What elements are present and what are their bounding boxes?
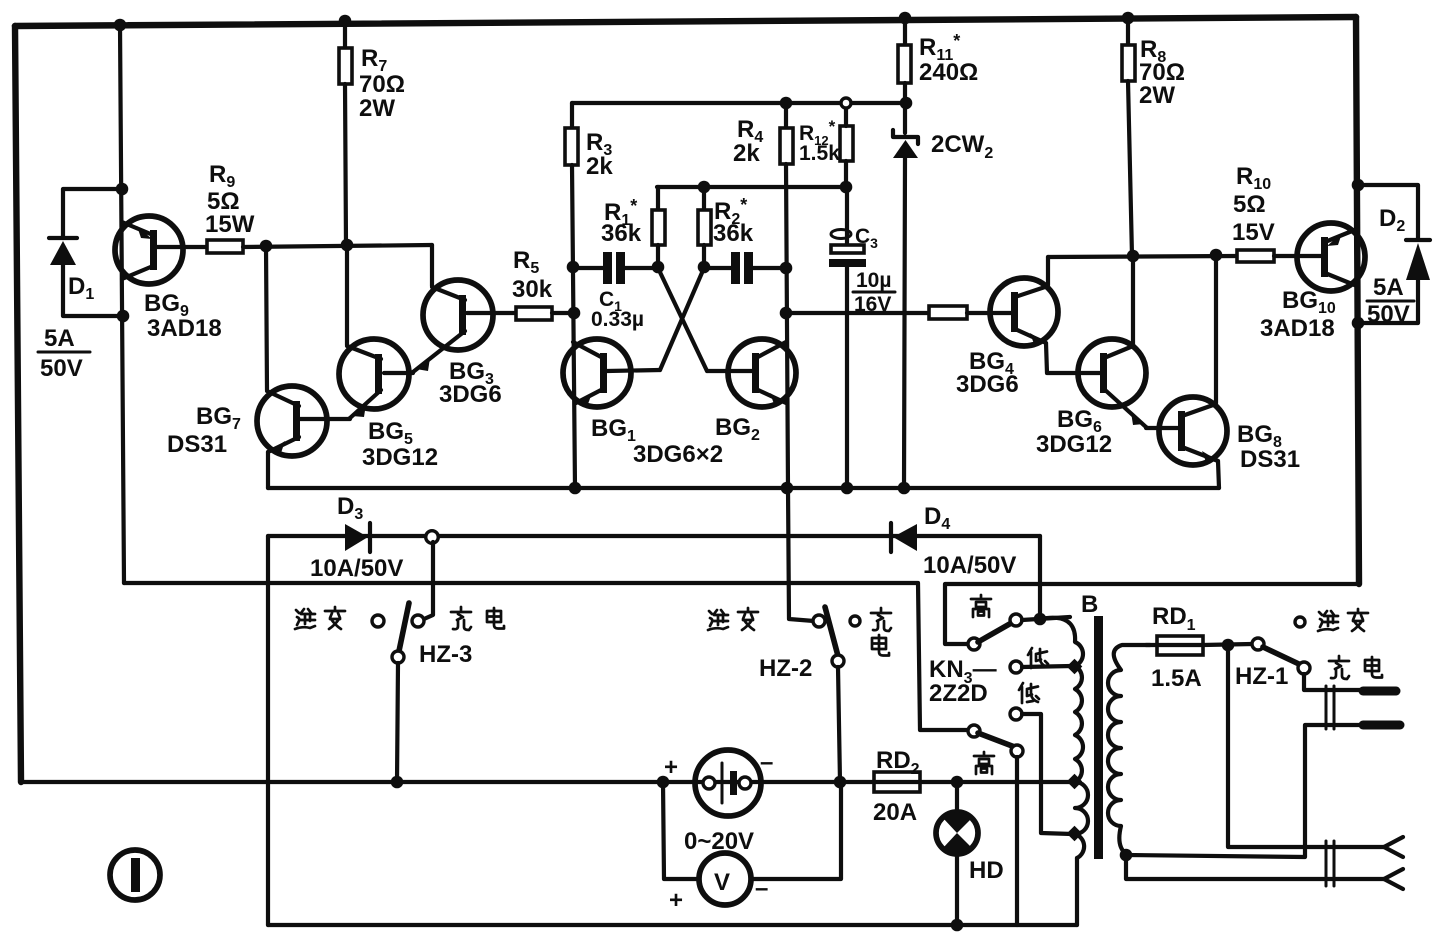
wire BG7 collector	[266, 246, 267, 390]
resistor R11	[898, 18, 911, 133]
label KN3-2Z2D	[929, 656, 997, 707]
transistor BG1	[563, 339, 631, 407]
node D2 top	[1352, 179, 1365, 192]
wire right bus vertical	[1356, 17, 1359, 584]
node HD bottom	[951, 919, 964, 932]
node RD1 output junction	[1222, 639, 1235, 652]
svg-text:36k: 36k	[713, 220, 754, 247]
label HZ-3 charge	[451, 607, 504, 630]
label C3 value 10u/16V	[853, 269, 895, 316]
svg-text:5A: 5A	[44, 325, 75, 352]
transformer primary winding	[1040, 618, 1088, 858]
wire blade 2 to secondary bottom	[1126, 725, 1360, 857]
node D4 / coil top	[1034, 613, 1047, 626]
node C1b / R4 line	[780, 262, 793, 275]
wire middle emitter bus y488	[268, 486, 1219, 490]
svg-text:10A/50V: 10A/50V	[310, 555, 403, 582]
wire BG1 base lead	[607, 370, 660, 371]
svg-text:+: +	[664, 754, 678, 781]
diode D1	[49, 238, 77, 265]
node BG1 line / R5	[568, 307, 581, 320]
svg-text:–: –	[760, 749, 773, 776]
wire D1 bottom branch	[63, 262, 123, 316]
svg-text:0~20V: 0~20V	[684, 828, 754, 855]
wire HZ-1 charge contact to plug blade 1	[1304, 674, 1360, 690]
diode D2	[1406, 240, 1430, 280]
svg-text:30k: 30k	[512, 276, 553, 303]
svg-text:3DG12: 3DG12	[1036, 431, 1112, 458]
node regulated rail / zener	[900, 97, 913, 110]
wire R6 to BG4 base	[967, 311, 1011, 315]
tap diamond middle	[1067, 774, 1083, 790]
resistor R2	[698, 187, 711, 267]
wire HZ-3 feed from D3 rail	[424, 542, 433, 619]
transistor BG9	[115, 216, 207, 284]
wire BG8 collector	[1214, 254, 1218, 403]
resistor R9	[207, 240, 243, 253]
node R7 / BG5 collector	[341, 239, 354, 252]
node BG1 collector / C1a	[567, 261, 580, 274]
wire BG8 emitter to mid bus	[1218, 461, 1219, 488]
label D2 rating 5A/50V	[1367, 274, 1414, 328]
resistor R1	[652, 187, 665, 267]
wire R5 to BG1 line	[552, 311, 574, 315]
svg-text:50V: 50V	[1367, 301, 1410, 328]
lamp HD	[936, 782, 978, 925]
node BG6 collector at rail	[1127, 250, 1140, 263]
wire voltmeter loop left	[663, 782, 699, 879]
resistor R5	[516, 307, 552, 320]
resistor R4	[780, 103, 793, 488]
wire D2 top branch	[1358, 185, 1418, 239]
fuse RD2	[874, 772, 920, 792]
transistor BG2	[728, 339, 796, 407]
switch HZ-2	[813, 607, 860, 667]
transformer core	[1094, 616, 1103, 859]
plug blade 1	[1363, 687, 1396, 696]
svg-text:20A: 20A	[873, 799, 917, 826]
svg-text:15V: 15V	[1232, 219, 1275, 246]
svg-text:0.33µ: 0.33µ	[591, 308, 644, 331]
label HZ-1 charge	[1329, 656, 1382, 679]
node HZ-2 at battery rail	[834, 776, 847, 789]
svg-text:70Ω: 70Ω	[359, 71, 405, 98]
wire cross-coupling C1a to BG2 base	[658, 268, 707, 371]
AC output fork 2	[1384, 869, 1403, 889]
wire mid rail from inner-left vertical to relay (lower)	[124, 583, 968, 730]
wire RD1 junction to AC fork 1	[1228, 645, 1384, 847]
switch KN3 high upper	[968, 614, 1022, 650]
svg-text:2k: 2k	[733, 140, 760, 167]
svg-text:5A: 5A	[1373, 274, 1404, 301]
wire D4 to relay high contact	[1038, 536, 1042, 616]
node R7 top	[339, 15, 352, 28]
wire BG4 base from R4 line	[786, 311, 929, 315]
wire secondary bottom to AC fork 2	[1126, 855, 1384, 879]
svg-text:15W: 15W	[205, 211, 255, 238]
node R12 bottom / bias rail / C3	[840, 181, 853, 194]
wire bottom bus	[268, 923, 1077, 927]
svg-text:2W: 2W	[359, 95, 395, 122]
transistor BG8	[1159, 397, 1227, 465]
node R12 top ring	[841, 98, 851, 108]
wire low lower to coil tap	[1022, 714, 1072, 834]
wire cross-coupling C1b to BG1 base	[660, 268, 704, 370]
label HZ-3 invert	[295, 607, 345, 629]
svg-text:3DG6×2: 3DG6×2	[633, 441, 723, 468]
wire top supply bus	[15, 17, 1356, 26]
svg-text:50V: 50V	[40, 355, 83, 382]
svg-text:3DG6: 3DG6	[439, 381, 502, 408]
node D2 bottom	[1352, 317, 1365, 330]
wire left bus vertical	[15, 26, 21, 782]
resistor R10	[1237, 250, 1274, 262]
wire bias rail y187	[657, 185, 847, 189]
capacitor C1a	[573, 252, 658, 284]
svg-text:HD: HD	[969, 857, 1004, 884]
svg-text:3AD18: 3AD18	[147, 315, 222, 342]
label D1 rating 5A/50V	[38, 325, 90, 382]
node secondary bottom junction	[1120, 849, 1133, 862]
wire BG6 emitter to BG8 base	[1146, 427, 1178, 428]
svg-text:36k: 36k	[601, 220, 642, 247]
svg-text:10µ: 10µ	[856, 269, 891, 292]
svg-text:3AD18: 3AD18	[1260, 315, 1335, 342]
node R4 line / BG4 wire	[780, 307, 793, 320]
svg-text:10A/50V: 10A/50V	[923, 552, 1016, 579]
label HZ-2 charge	[871, 608, 891, 656]
transformer secondary winding	[1108, 645, 1150, 854]
wire BG3 emitter to BG5 base	[384, 372, 413, 373]
transistor BG6	[1078, 339, 1146, 427]
svg-text:DS31: DS31	[1240, 446, 1300, 473]
switch KN3 low upper	[1010, 661, 1022, 673]
wire BG6 collector	[1131, 256, 1135, 345]
resistor R7	[339, 21, 352, 245]
node BG2 emitter at mid bus	[781, 482, 794, 495]
svg-text:+: +	[669, 887, 683, 914]
node BG1 emitter at mid bus	[569, 482, 582, 495]
wire HZ-3 pole down to battery rail	[397, 663, 398, 782]
tap diamond upper	[1067, 659, 1083, 675]
capacitor C3 electrolytic	[829, 187, 866, 488]
wire BG2 line down to HZ-2	[788, 488, 814, 621]
wire D2 bottom branch	[1358, 280, 1418, 323]
svg-text:–: –	[755, 875, 768, 902]
svg-text:2Z2D: 2Z2D	[929, 680, 988, 707]
wire BG3 collector	[430, 245, 434, 286]
wire BG3 base lead	[467, 311, 516, 315]
svg-text:3DG6: 3DG6	[956, 371, 1019, 398]
node R11 top	[899, 12, 912, 25]
node D1 top	[116, 183, 129, 196]
svg-text:2CW2: 2CW2	[931, 131, 993, 162]
wire primary bottom to bus	[1075, 858, 1079, 925]
svg-text:5Ω: 5Ω	[1233, 191, 1266, 218]
svg-text:HZ-3: HZ-3	[419, 641, 472, 668]
wire secondary top to RD1	[1146, 643, 1157, 647]
wire collector rail y256	[1048, 256, 1237, 257]
wire D1 top branch	[63, 189, 122, 238]
wire high lower contact down to bottom bus	[1015, 757, 1019, 925]
node battery left	[657, 776, 670, 789]
node R4 top	[780, 97, 793, 110]
svg-text:240Ω: 240Ω	[919, 59, 978, 86]
label KN3 low lower	[1019, 683, 1039, 703]
battery GB	[695, 750, 761, 816]
node BG8 collector at rail	[1210, 249, 1223, 262]
wire D3-D4 rail y536	[268, 534, 1040, 538]
node D1 bottom	[117, 310, 130, 323]
node R2 bottom / C1b	[698, 261, 711, 274]
label KN3 low upper	[1028, 648, 1048, 668]
wire high contact to transformer top	[1022, 617, 1070, 620]
wire BG4 collector	[1046, 257, 1050, 285]
wire R10 to BG10 base	[1274, 254, 1321, 258]
node C3 at mid bus	[841, 482, 854, 495]
svg-text:B: B	[1081, 591, 1098, 618]
diode D4	[891, 523, 917, 552]
svg-text:DS31: DS31	[167, 431, 227, 458]
wire voltmeter loop right	[751, 782, 841, 879]
node HZ-3 tap ring	[426, 531, 439, 544]
fuse RD1	[1157, 636, 1203, 655]
node HD top	[951, 776, 964, 789]
plug blade 2	[1363, 721, 1400, 730]
switch KN3 low lower	[1010, 708, 1022, 720]
svg-text:3DG12: 3DG12	[362, 444, 438, 471]
transistor BG10	[1297, 223, 1365, 291]
label KN3 high lower	[974, 752, 994, 774]
node R1 bottom / C1a	[652, 261, 665, 274]
AC output fork 1	[1384, 837, 1403, 857]
node top bus / inner-left	[114, 19, 127, 32]
cord mark lower	[1326, 841, 1334, 886]
transistor BG7	[257, 386, 327, 456]
switch HZ-1	[1252, 617, 1310, 674]
wire BG5 emitter to BG7 base	[300, 418, 350, 419]
wire low upper to coil tap	[1022, 666, 1072, 667]
wire BG2 base lead	[707, 369, 752, 373]
resistor R3	[565, 103, 578, 488]
diode D3	[345, 523, 370, 552]
wire HZ-2 pole down to battery rail	[838, 667, 840, 782]
switch HZ-3	[372, 603, 424, 663]
cord mark upper	[1326, 686, 1334, 729]
transistor BG3	[413, 280, 493, 372]
switch KN3 high lower	[968, 725, 1023, 757]
svg-text:HZ-1: HZ-1	[1235, 663, 1288, 690]
node zener at mid bus	[898, 482, 911, 495]
wire RD1 to HZ-1	[1203, 644, 1252, 645]
node R8 top	[1122, 12, 1135, 25]
label KN3 high upper	[971, 595, 991, 617]
voltmeter V	[699, 853, 751, 905]
wire right bus to relay (upper)	[945, 584, 1359, 644]
capacitor C1b	[704, 252, 786, 284]
svg-text:2k: 2k	[586, 153, 613, 180]
svg-text:1.5k: 1.5k	[799, 142, 840, 165]
resistor R6 base resistor	[929, 306, 967, 319]
svg-text:2W: 2W	[1139, 82, 1175, 109]
resistor R12	[840, 103, 853, 187]
node R9 / BG7 collector	[260, 240, 273, 253]
wire inner-left vertical	[120, 25, 124, 583]
zener diode 2CW2	[893, 130, 918, 488]
wire BG7 emitter to mid bus	[266, 452, 270, 488]
node R2 top	[698, 181, 711, 194]
label HZ-1 invert	[1318, 609, 1368, 631]
node HZ-3 at battery rail	[391, 776, 404, 789]
wire battery positive rail	[21, 780, 1072, 784]
wire regulated rail y103	[572, 101, 906, 105]
transistor BG4	[990, 278, 1058, 346]
svg-text:V: V	[714, 869, 730, 896]
wire BG5 collector	[345, 245, 349, 345]
transistor BG5	[339, 339, 409, 418]
svg-text:1.5A: 1.5A	[1151, 665, 1202, 692]
figure number I	[110, 850, 160, 900]
wire lower box left edge	[266, 536, 270, 925]
tap diamond lower	[1067, 826, 1083, 842]
svg-text:HZ-2: HZ-2	[759, 655, 812, 682]
resistor R8	[1122, 18, 1135, 256]
wire R9 to collector rail	[243, 245, 432, 247]
wire BG4 emitter to BG6 base	[1046, 343, 1100, 373]
label HZ-2 invert	[708, 608, 758, 630]
